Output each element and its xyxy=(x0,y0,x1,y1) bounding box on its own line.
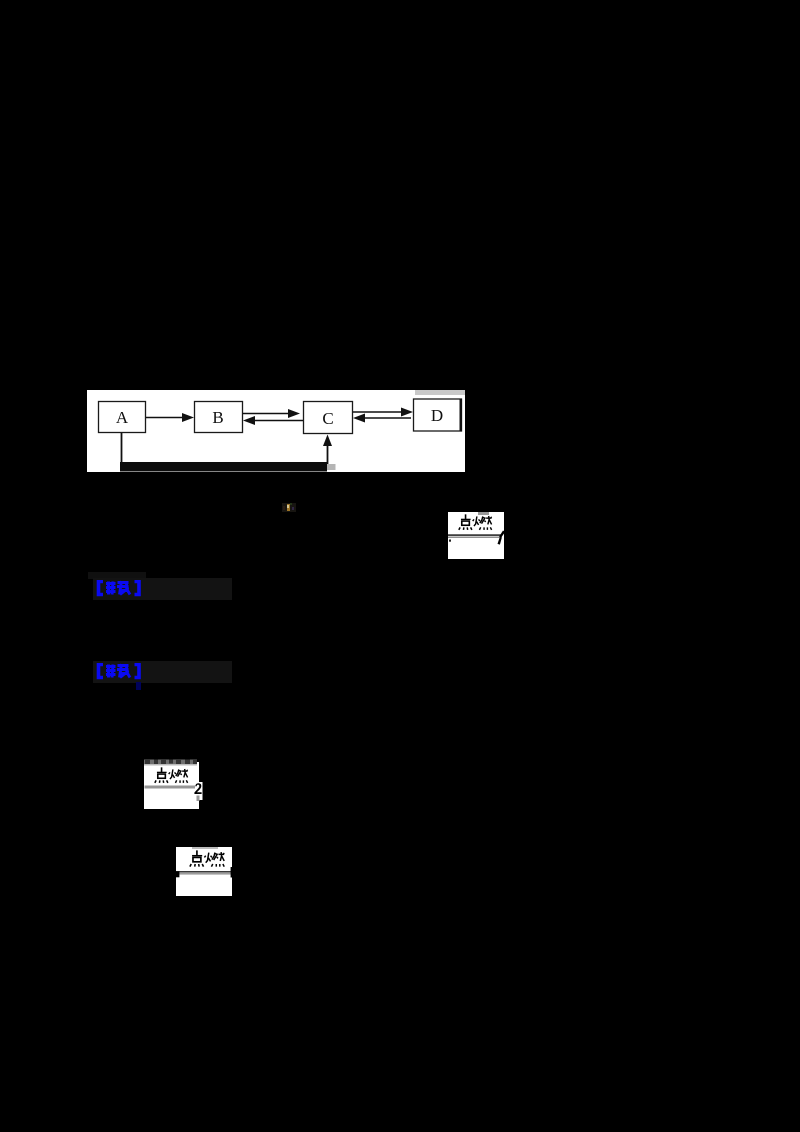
coefficient 2 xyxy=(194,783,201,794)
arrow A to B xyxy=(146,417,185,419)
arrow C to D (top, right head) xyxy=(353,411,404,413)
arrow shaft double line xyxy=(448,534,502,536)
box C xyxy=(304,402,353,434)
arrow B to C (top, right head) xyxy=(243,413,291,415)
blue label 2 xyxy=(93,661,232,683)
label 点燃 xyxy=(459,514,492,530)
arrow head / digit mark xyxy=(499,531,505,538)
equation fragment 3 xyxy=(176,847,232,896)
wire A down xyxy=(121,433,123,464)
equation fragment 2 xyxy=(144,762,199,809)
svg-text:C: C xyxy=(322,409,333,428)
svg-text:B: B xyxy=(212,408,223,427)
svg-text:D: D xyxy=(431,406,443,425)
gray remnant right of bar xyxy=(327,464,336,470)
flow diagram panel (white) xyxy=(87,390,465,472)
blue label 1 xyxy=(88,572,146,579)
white nub for digit xyxy=(195,782,203,800)
box A xyxy=(99,402,146,433)
right digit remnant xyxy=(231,867,233,878)
thick bar A to C xyxy=(120,462,327,472)
arrow shaft xyxy=(145,786,196,789)
arrow shaft xyxy=(176,871,232,872)
box D xyxy=(414,399,462,431)
gray band top right xyxy=(415,390,465,395)
shared glyph defs xyxy=(0,0,1,1)
tiny colored icon xyxy=(282,503,296,512)
left digit remnant xyxy=(176,871,179,877)
arrow D to C (bottom, left head) xyxy=(365,417,411,419)
box B xyxy=(195,402,243,433)
label 点燃 xyxy=(190,850,224,866)
svg-text:A: A xyxy=(116,408,129,427)
speckle band top xyxy=(144,760,197,765)
label 点燃 xyxy=(155,767,188,783)
arrow up into C xyxy=(327,443,329,464)
arrow C to B (bottom, left head) xyxy=(255,420,303,422)
equation fragment 1 (ignite over arrow) xyxy=(448,512,504,559)
